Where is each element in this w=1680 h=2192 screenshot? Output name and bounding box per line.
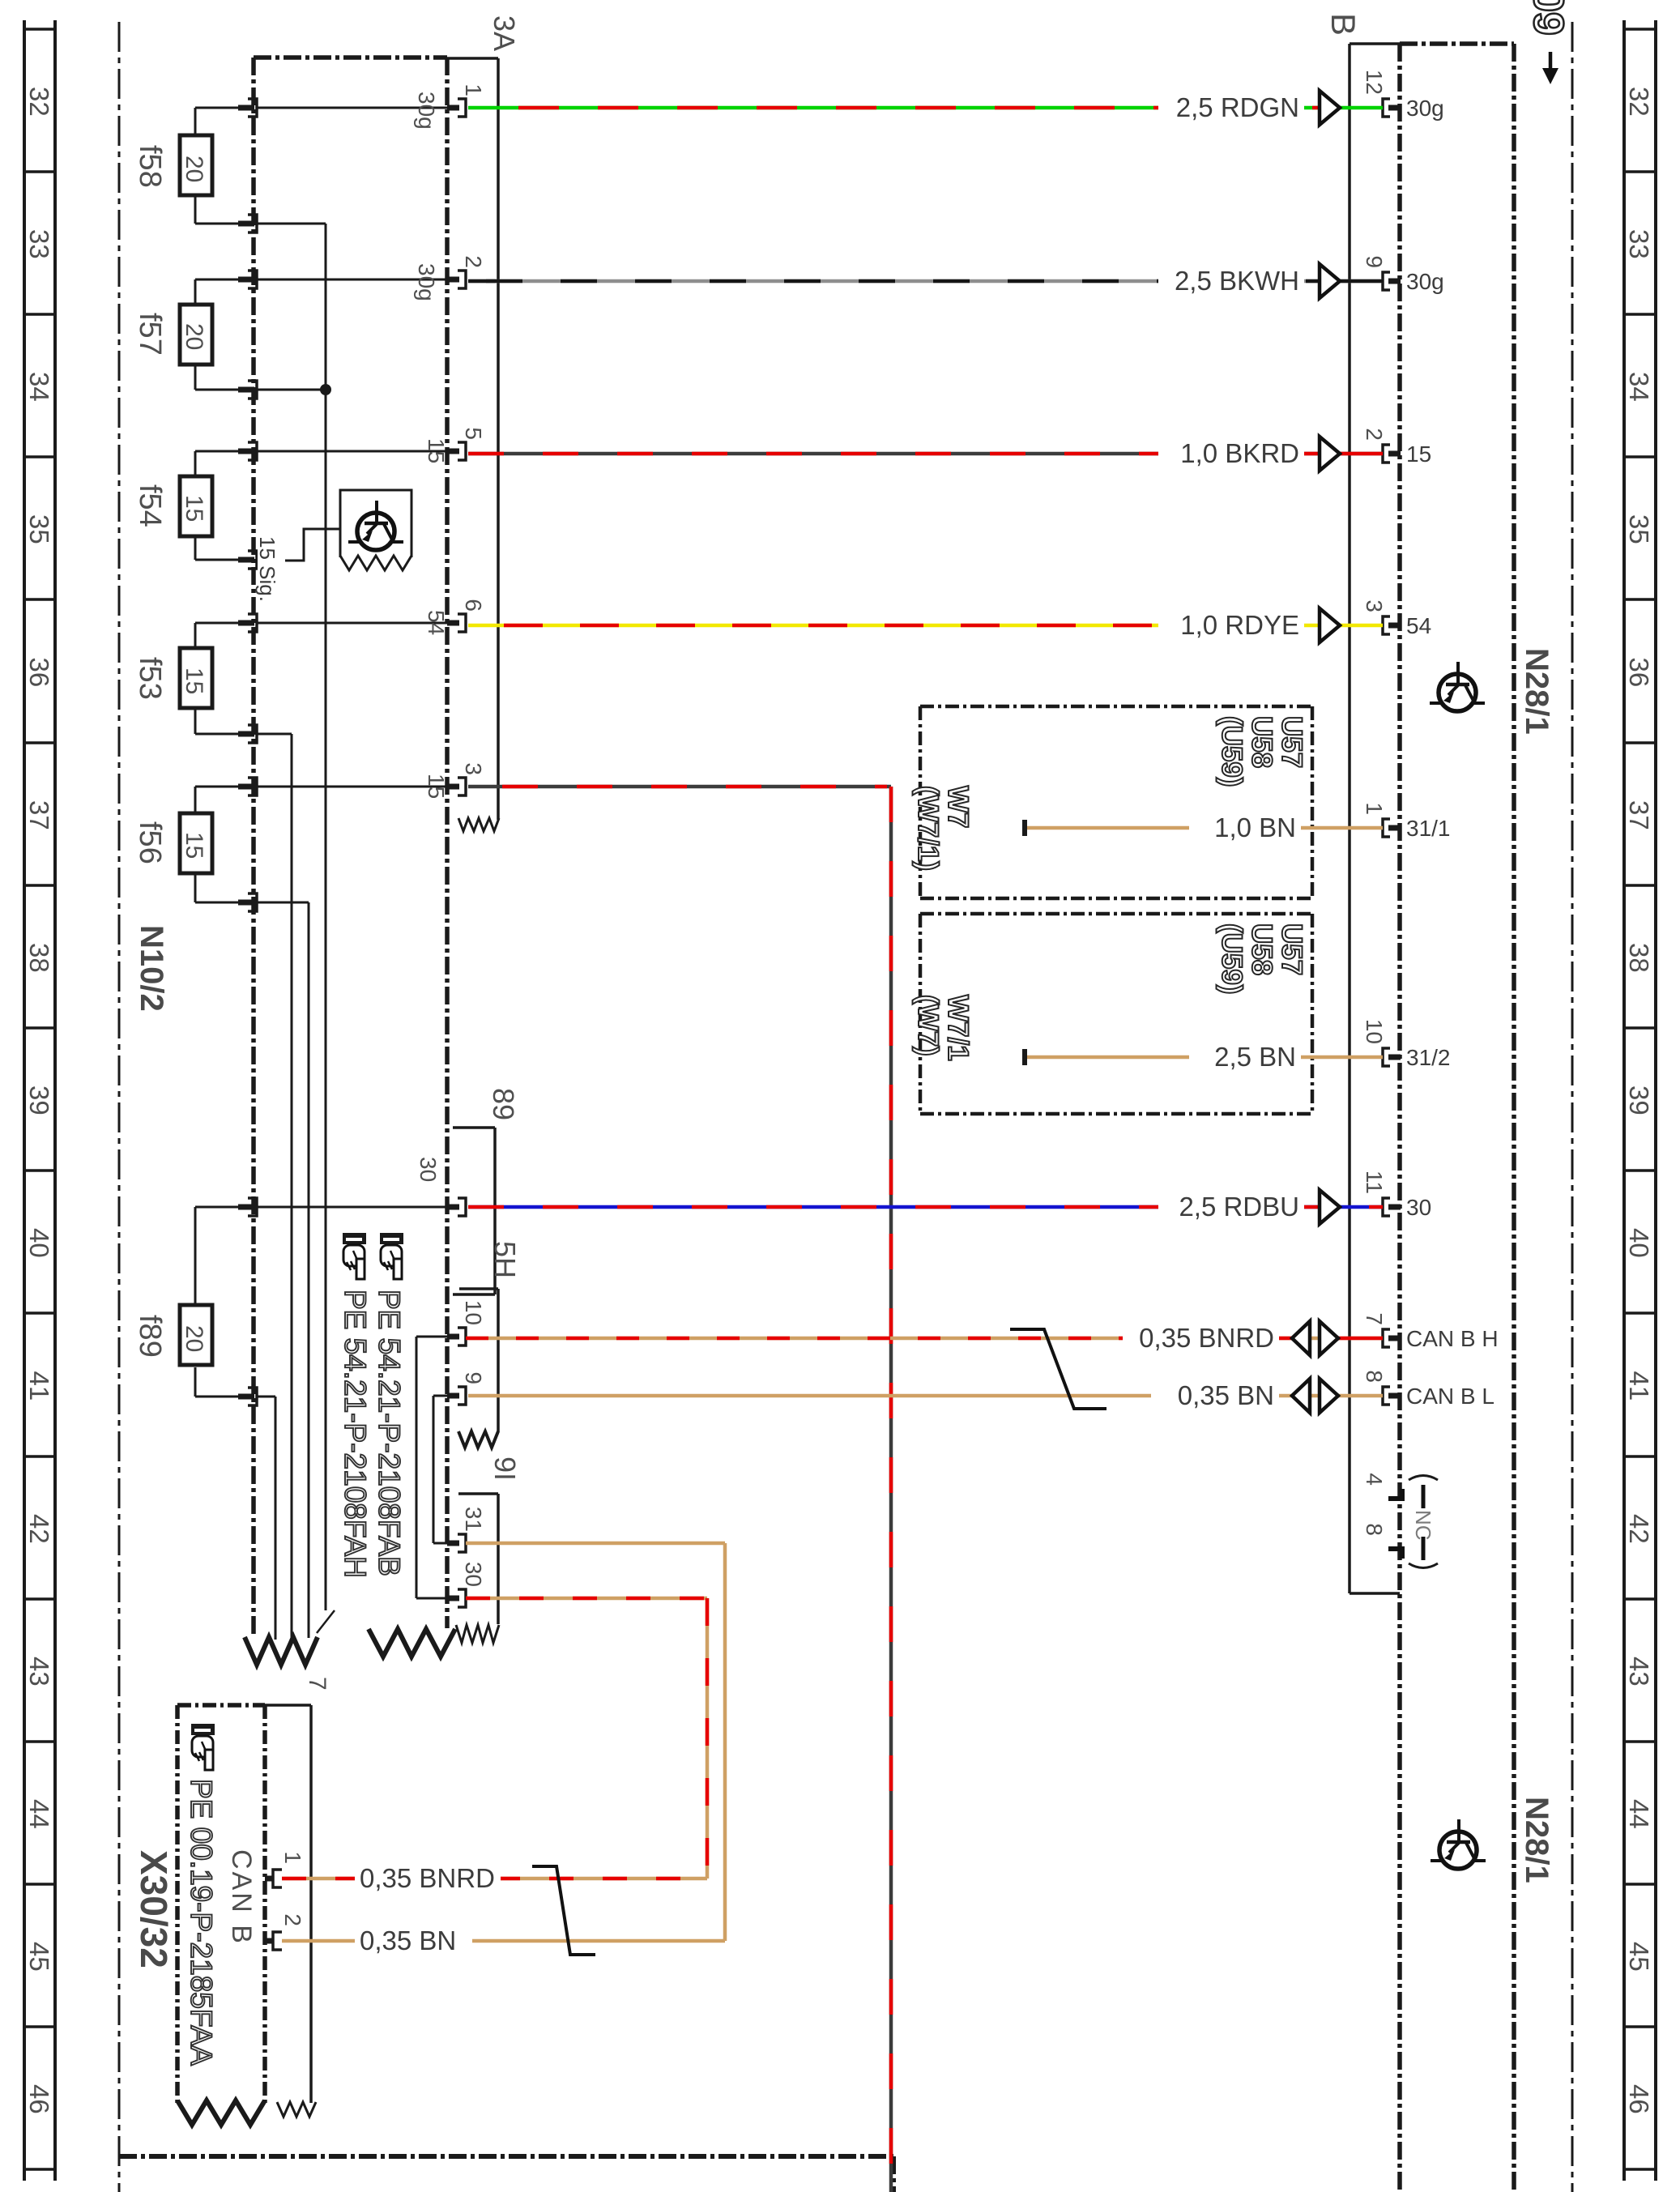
svg-text:N10/2: N10/2 — [134, 925, 169, 1012]
svg-text:39: 39 — [24, 1085, 54, 1115]
svg-text:PE 54.21-P-2108FAH: PE 54.21-P-2108FAH — [339, 1290, 372, 1578]
svg-text:30g: 30g — [1406, 269, 1444, 294]
svg-text:35: 35 — [1624, 514, 1654, 544]
svg-text:30g: 30g — [1406, 96, 1444, 121]
svg-text:34: 34 — [1624, 372, 1654, 402]
svg-text:39: 39 — [1624, 1085, 1654, 1115]
svg-text:8: 8 — [1362, 1370, 1387, 1383]
svg-text:3: 3 — [461, 762, 486, 775]
svg-text:CAN B L: CAN B L — [1406, 1384, 1495, 1409]
svg-text:42: 42 — [24, 1514, 54, 1544]
svg-text:2: 2 — [461, 255, 486, 268]
svg-text:44: 44 — [1624, 1799, 1654, 1829]
svg-text:f57: f57 — [133, 313, 167, 356]
svg-text:46: 46 — [24, 2084, 54, 2114]
svg-text:38: 38 — [1624, 943, 1654, 973]
svg-text:15: 15 — [424, 774, 449, 799]
svg-text:2,5 RDGN: 2,5 RDGN — [1176, 92, 1299, 122]
svg-text:43: 43 — [24, 1657, 54, 1687]
svg-text:5: 5 — [461, 427, 486, 440]
svg-text:30: 30 — [416, 1157, 441, 1182]
svg-text:20: 20 — [181, 156, 207, 182]
svg-text:32: 32 — [24, 87, 54, 117]
svg-text:1,0 BN: 1,0 BN — [1214, 812, 1296, 842]
svg-text:34: 34 — [24, 372, 54, 402]
svg-text:2: 2 — [1362, 428, 1387, 441]
svg-text:15: 15 — [181, 832, 207, 859]
svg-text:6: 6 — [461, 599, 486, 612]
svg-text:12: 12 — [1362, 70, 1387, 95]
svg-text:30g: 30g — [414, 92, 439, 130]
svg-text:45: 45 — [24, 1942, 54, 1972]
svg-text:U57: U57 — [1276, 923, 1307, 975]
svg-text:9I: 9I — [488, 1456, 522, 1481]
svg-text:f56: f56 — [133, 821, 167, 864]
svg-text:44: 44 — [24, 1799, 54, 1829]
svg-text:42: 42 — [1624, 1514, 1654, 1544]
svg-text:U58: U58 — [1246, 716, 1277, 768]
svg-text:15: 15 — [1406, 441, 1431, 467]
svg-text:(U59): (U59) — [1216, 923, 1247, 995]
svg-text:0,35 BNRD: 0,35 BNRD — [360, 1863, 495, 1893]
svg-text:31: 31 — [461, 1507, 486, 1532]
svg-text:B: B — [1324, 13, 1362, 36]
svg-text:CAN B H: CAN B H — [1406, 1326, 1499, 1351]
svg-text:36: 36 — [1624, 658, 1654, 688]
svg-text:CAN B: CAN B — [226, 1849, 257, 1946]
svg-text:f53: f53 — [133, 657, 167, 700]
svg-text:3: 3 — [1362, 599, 1387, 612]
svg-text:40: 40 — [1624, 1228, 1654, 1258]
svg-text:33: 33 — [24, 229, 54, 259]
svg-text:U58: U58 — [1246, 923, 1277, 975]
svg-text:PE 54.21-P-2108FAB: PE 54.21-P-2108FAB — [373, 1290, 406, 1576]
svg-text:NC: NC — [1411, 1510, 1435, 1541]
svg-text:31/2: 31/2 — [1406, 1045, 1451, 1070]
svg-text:15: 15 — [181, 495, 207, 522]
svg-text:15: 15 — [424, 438, 449, 463]
svg-text:1,0 RDYE: 1,0 RDYE — [1180, 610, 1299, 640]
svg-text:f54: f54 — [133, 484, 167, 527]
svg-text:33: 33 — [1624, 229, 1654, 259]
svg-text:2,5 BKWH: 2,5 BKWH — [1175, 266, 1299, 296]
svg-text:3A: 3A — [488, 15, 521, 51]
svg-text:37: 37 — [24, 800, 54, 830]
svg-text:31/1: 31/1 — [1406, 816, 1451, 841]
svg-text:5H: 5H — [488, 1241, 522, 1278]
svg-text:PE 00.19-P-2185FAA: PE 00.19-P-2185FAA — [185, 1779, 218, 2066]
svg-text:15: 15 — [181, 667, 207, 694]
svg-text:U57: U57 — [1276, 716, 1307, 768]
svg-text:1: 1 — [280, 1851, 305, 1864]
svg-text:(U59): (U59) — [1216, 716, 1247, 787]
svg-text:43: 43 — [1624, 1657, 1654, 1687]
svg-text:1: 1 — [461, 83, 486, 96]
svg-text:37: 37 — [1624, 800, 1654, 830]
svg-text:(W7): (W7) — [912, 995, 944, 1056]
svg-text:(W7/1): (W7/1) — [912, 786, 944, 871]
svg-text:10: 10 — [1362, 1019, 1387, 1044]
svg-text:X30/32: X30/32 — [133, 1850, 175, 1968]
svg-text:W7: W7 — [942, 786, 974, 829]
svg-text:54: 54 — [424, 610, 449, 635]
svg-text:0,35 BN: 0,35 BN — [1178, 1380, 1274, 1410]
svg-text:2: 2 — [280, 1913, 305, 1926]
svg-text:89: 89 — [487, 1088, 520, 1120]
svg-text:4: 4 — [1362, 1473, 1387, 1486]
svg-text:N28/1: N28/1 — [1519, 1797, 1554, 1883]
svg-text:15 Sig.: 15 Sig. — [255, 536, 279, 602]
svg-text:32: 32 — [1624, 87, 1654, 117]
svg-text:40: 40 — [24, 1228, 54, 1258]
svg-text:f89: f89 — [133, 1315, 167, 1358]
svg-text:8: 8 — [1362, 1523, 1387, 1536]
svg-text:30: 30 — [1406, 1195, 1431, 1220]
svg-text:45: 45 — [1624, 1942, 1654, 1972]
svg-text:20: 20 — [181, 323, 207, 350]
svg-text:f58: f58 — [133, 145, 167, 188]
svg-text:35: 35 — [24, 514, 54, 544]
svg-text:7: 7 — [1362, 1312, 1387, 1325]
svg-text:30: 30 — [461, 1562, 486, 1587]
svg-text:0,35 BN: 0,35 BN — [360, 1925, 456, 1955]
svg-text:9: 9 — [1362, 255, 1387, 268]
svg-text:30g: 30g — [414, 263, 439, 301]
svg-text:11: 11 — [1362, 1171, 1387, 1194]
svg-text:9: 9 — [461, 1371, 486, 1384]
svg-text:W7/1: W7/1 — [942, 995, 974, 1061]
svg-text:54: 54 — [1406, 613, 1431, 638]
svg-text:46: 46 — [1624, 2084, 1654, 2114]
svg-text:09: 09 — [1524, 0, 1571, 36]
svg-text:41: 41 — [1624, 1371, 1654, 1401]
svg-text:41: 41 — [24, 1371, 54, 1401]
svg-text:0,35 BNRD: 0,35 BNRD — [1139, 1323, 1274, 1353]
svg-text:38: 38 — [24, 943, 54, 973]
svg-text:2,5 RDBU: 2,5 RDBU — [1179, 1192, 1299, 1222]
svg-text:7: 7 — [304, 1677, 330, 1691]
svg-text:N28/1: N28/1 — [1519, 648, 1554, 735]
svg-text:2,5 BN: 2,5 BN — [1214, 1042, 1296, 1072]
svg-text:36: 36 — [24, 658, 54, 688]
svg-text:1: 1 — [1362, 802, 1387, 815]
svg-text:20: 20 — [181, 1325, 207, 1352]
svg-text:10: 10 — [461, 1300, 486, 1325]
svg-text:1,0 BKRD: 1,0 BKRD — [1180, 438, 1299, 468]
